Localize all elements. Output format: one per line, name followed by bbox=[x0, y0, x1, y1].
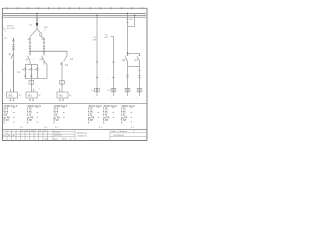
svg-text:M3: M3 bbox=[28, 94, 32, 98]
disconnect ticks on T1 bbox=[36, 19, 38, 21]
title block rows left bbox=[2, 132, 75, 137]
title block texts bbox=[3, 130, 128, 140]
cable list W104 bbox=[88, 106, 103, 125]
terminal X6 bbox=[125, 88, 130, 92]
cable list W102 bbox=[27, 106, 42, 125]
starter branch 1 contactor bbox=[22, 68, 24, 71]
svg-text:aM: aM bbox=[129, 19, 132, 21]
feeder 7 branch rail bbox=[128, 52, 140, 54]
svg-text:gepr.: gepr. bbox=[54, 139, 59, 141]
svg-text:Schema: Schema bbox=[54, 135, 62, 137]
branch A vertical bbox=[29, 37, 31, 52]
feeder 4 drop bbox=[96, 15, 98, 93]
terminal X4 bbox=[95, 88, 100, 92]
switch QB below rail bbox=[42, 51, 45, 61]
switch Q6 terminal tick bbox=[126, 54, 128, 56]
svg-text:Anlage: Anlage bbox=[54, 130, 61, 133]
svg-text:x: x bbox=[33, 59, 34, 61]
feeder 6 drop bbox=[127, 13, 129, 56]
title block rows right bbox=[110, 133, 147, 137]
frame column ticks bbox=[7, 7, 142, 9]
distribution rail bbox=[30, 50, 67, 52]
svg-text:-Q: -Q bbox=[8, 54, 11, 56]
svg-text:-Q2: -Q2 bbox=[41, 38, 46, 41]
cross ticks feeder6 bbox=[126, 76, 128, 78]
svg-text:-Q1: -Q1 bbox=[27, 38, 32, 41]
svg-text:x: x bbox=[94, 97, 95, 99]
svg-text:M3: M3 bbox=[9, 94, 13, 98]
bus line L1 bbox=[3, 12, 146, 14]
svg-text:M: M bbox=[19, 95, 21, 97]
cable list W101 bbox=[4, 106, 19, 125]
overload F2 bbox=[30, 79, 32, 93]
bus line L2 bbox=[3, 14, 146, 16]
svg-text:xx: xx bbox=[70, 139, 72, 141]
svg-text:M: M bbox=[39, 95, 41, 97]
supply label text bbox=[7, 26, 16, 30]
cross ticks feeder7 bbox=[138, 76, 140, 78]
PE tap squiggle bbox=[3, 27, 6, 32]
terminal X5 bbox=[111, 88, 116, 92]
frame top border bbox=[2, 7, 147, 9]
link rail bbox=[128, 66, 140, 68]
reversing starter top rail bbox=[25, 64, 37, 66]
svg-text:-Q6: -Q6 bbox=[122, 59, 127, 62]
bus line L3 bbox=[3, 16, 146, 18]
svg-text:x: x bbox=[125, 97, 126, 99]
left border row marks bbox=[1, 17, 3, 70]
svg-text:x: x bbox=[137, 97, 138, 99]
starter branch 2 contactor bbox=[28, 68, 30, 71]
lower separator line bbox=[2, 103, 147, 105]
cable list W103 bbox=[54, 106, 69, 125]
svg-text:Motoren: Motoren bbox=[120, 130, 128, 133]
svg-text:x: x bbox=[111, 97, 112, 99]
cable schedule columns bbox=[4, 106, 136, 125]
texts above title block bbox=[20, 127, 135, 129]
overload F4 bbox=[60, 81, 65, 85]
branch B vertical bbox=[43, 38, 45, 51]
svg-text:AC 400V: AC 400V bbox=[7, 27, 16, 30]
svg-text:Blatt: Blatt bbox=[112, 130, 117, 133]
incoming arrow feeder F0 bbox=[13, 38, 15, 93]
feeder 4 phase ticks bbox=[96, 61, 98, 63]
feeder 5 stub bbox=[111, 37, 114, 94]
fuse ticks F6 bbox=[126, 19, 128, 23]
link tick feeder7 bbox=[138, 70, 140, 72]
feeder T1 drop from bus bbox=[36, 13, 38, 29]
starter branch 3 contactor bbox=[34, 68, 36, 71]
terminal tick on F0 bbox=[12, 43, 14, 45]
switch Q6 bbox=[125, 56, 128, 61]
frame left border bbox=[1, 8, 3, 140]
tap loop bbox=[128, 15, 135, 26]
aux block on right blade bbox=[40, 33, 42, 36]
starter bottom rail bbox=[25, 78, 47, 80]
rail end drop bbox=[66, 51, 68, 56]
title block column dividers bbox=[7, 130, 110, 141]
motor M3 bbox=[57, 92, 68, 98]
motor M1 bbox=[13, 61, 15, 92]
frame bottom border bbox=[2, 140, 147, 142]
svg-text:100234-001: 100234-001 bbox=[113, 135, 125, 137]
svg-text:gez.: gez. bbox=[45, 139, 49, 141]
cable list W105 bbox=[103, 106, 118, 125]
feeder 5 phase ticks bbox=[112, 61, 114, 63]
switch QC bbox=[64, 56, 67, 61]
feeder 3 vertical bbox=[61, 62, 63, 93]
svg-text:=Einspeisg: =Einspeisg bbox=[77, 132, 87, 134]
terminal X7 bbox=[137, 88, 142, 92]
motor M2 bbox=[26, 92, 37, 98]
switch QA below rail bbox=[29, 51, 30, 52]
bypass jog wire bbox=[44, 61, 47, 79]
fuse block F1 bbox=[36, 23, 38, 26]
contactor K0 on F0 bbox=[12, 47, 15, 50]
cable list W106 bbox=[121, 106, 136, 125]
svg-text:-Q7: -Q7 bbox=[134, 59, 139, 62]
svg-text:x: x bbox=[109, 78, 110, 80]
svg-text:+Schaltschr: +Schaltschr bbox=[77, 134, 88, 137]
title block outline bbox=[2, 129, 147, 131]
svg-text:M3: M3 bbox=[59, 94, 63, 98]
feeder 7 drop bbox=[139, 53, 141, 56]
svg-text:Norm: Norm bbox=[62, 139, 67, 141]
svg-text:M: M bbox=[69, 95, 71, 97]
changeover switch blades bbox=[30, 29, 37, 36]
frame right border bbox=[146, 8, 148, 140]
switch Q0 on F0 bbox=[11, 54, 14, 59]
